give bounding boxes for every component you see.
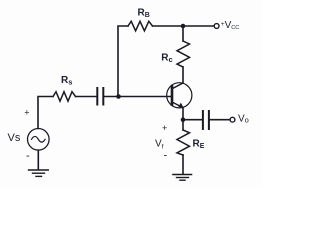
wire C2 to Vo terminal (210, 119, 230, 121)
wire Vs bottom to ground (37, 150, 39, 169)
capacitor C1 (96, 88, 98, 105)
svg-text:RE: RE (193, 139, 205, 151)
svg-text:+: + (162, 123, 167, 133)
svg-text:-: - (26, 150, 30, 162)
source Vs (28, 129, 50, 151)
wire Vs top to Rs (38, 97, 53, 129)
wire Rc to collector (182, 67, 184, 83)
svg-text:Vf: Vf (155, 139, 164, 151)
ground (left) (29, 169, 49, 171)
wire Vcc node to terminal (183, 25, 214, 27)
wire emitter node to RE (182, 120, 184, 130)
wire emitter down (182, 108, 184, 118)
svg-text:RB: RB (138, 8, 150, 20)
wire emitter node to C2 (183, 119, 202, 121)
wire RE to ground (182, 155, 184, 174)
wire Rs to C1 (76, 96, 97, 98)
svg-text:Vo: Vo (238, 114, 249, 125)
node emitter junction (181, 117, 186, 122)
resistor Rc (177, 41, 190, 67)
terminal Vo (230, 117, 235, 122)
resistor RB (128, 21, 153, 31)
node base junction (116, 94, 121, 99)
svg-text:+VCC: +VCC (221, 20, 239, 31)
wire base node up and to RB (118, 26, 128, 97)
capacitor C2 (202, 111, 204, 129)
svg-text:Vs: Vs (8, 132, 21, 144)
svg-text:-: - (164, 149, 168, 161)
resistor Rs (53, 92, 76, 102)
svg-text:+: + (24, 108, 29, 118)
svg-text:Rc: Rc (161, 53, 172, 65)
wire RB to Vcc node (153, 25, 184, 27)
svg-text:Rs: Rs (61, 75, 72, 87)
wire Vcc node to Rc (182, 26, 184, 41)
ground (right) (173, 174, 192, 176)
resistor RE (177, 130, 190, 155)
terminal +Vcc (214, 24, 219, 29)
transistor Q1 (167, 83, 192, 108)
node Vcc junction (181, 24, 186, 29)
wire C1 to base (104, 96, 172, 98)
